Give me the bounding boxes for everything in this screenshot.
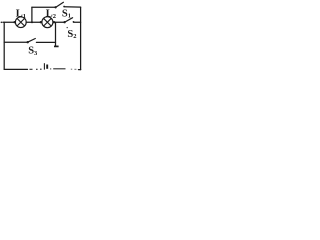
- lamp L2 right contact dot / node B: [53, 21, 55, 23]
- L1 bulb circle: [15, 17, 26, 28]
- S1 right contact dot: [63, 6, 65, 8]
- battery short plate: [46, 65, 48, 69]
- wire bottom dash 4: [50, 68, 51, 70]
- wire bottom dash 1: [30, 68, 33, 70]
- lamp L1: [15, 17, 26, 28]
- S1 lever: [56, 2, 64, 7]
- S2 lever: [65, 18, 73, 22]
- node A junction dot: [31, 21, 33, 23]
- wire main row S2 to right: [74, 21, 81, 23]
- wire right vertical: [80, 7, 82, 70]
- lamp L2 left contact dot: [40, 21, 42, 23]
- wire second row left of S3: [4, 41, 27, 43]
- S1 left contact dot: [54, 6, 56, 8]
- S2 right contact dot: [73, 21, 75, 23]
- battery long plate: [43, 63, 45, 69]
- lamp L1 left contact dot: [13, 21, 15, 23]
- L1 cross stroke 2: [17, 18, 25, 26]
- L2 cross stroke 2: [44, 18, 52, 26]
- wire main row L1 to node A: [26, 21, 40, 23]
- wire top branch vertical at node A: [31, 7, 33, 22]
- wire second row right of S3: [36, 41, 55, 43]
- S2 left contact dot: [63, 21, 65, 23]
- wire bottom dash 2: [36, 68, 38, 70]
- L1 cross stroke 1: [17, 18, 25, 26]
- wire right bottom foot: [79, 69, 81, 71]
- ground/terminal bar at bottom of node-B vertical: [54, 45, 59, 47]
- switch S2 (main row): [63, 18, 74, 24]
- switch S1 (top wire): [54, 2, 65, 8]
- L2 cross stroke 1: [44, 18, 52, 26]
- wire vertical from node B down: [55, 22, 57, 46]
- wire top left of S1: [32, 6, 55, 8]
- wire bottom dash 5 (long): [53, 68, 65, 70]
- S3 left contact dot: [27, 41, 29, 43]
- wire bottom solid left segment: [4, 68, 27, 70]
- wire bottom dash 3: [40, 68, 42, 70]
- terminal stub at far left of main row: [1, 22, 3, 24]
- L2 bulb circle: [42, 17, 53, 28]
- wire left vertical: [3, 22, 5, 69]
- wire bottom dash 7 (faint): [74, 68, 76, 70]
- lamp L2: [42, 17, 53, 28]
- stray mark near S2 lever tip: [67, 27, 68, 28]
- S3 lever: [28, 39, 35, 43]
- wire bottom dash 6 (faint): [71, 68, 72, 70]
- wire main row left: [3, 21, 15, 23]
- wire top right of S1: [64, 6, 80, 8]
- wire main row L2 to S2: [54, 21, 65, 23]
- switch S3 (second row): [27, 39, 36, 44]
